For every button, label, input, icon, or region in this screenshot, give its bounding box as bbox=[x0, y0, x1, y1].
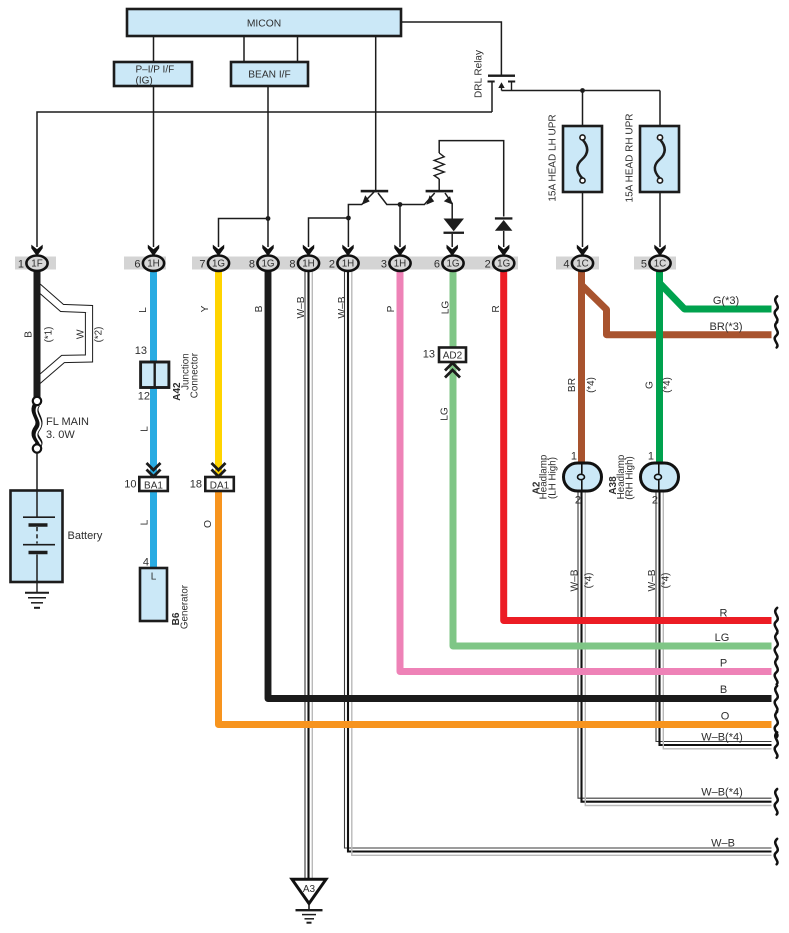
svg-text:2: 2 bbox=[652, 495, 658, 507]
svg-text:P: P bbox=[720, 657, 727, 669]
svg-text:3: 3 bbox=[381, 258, 387, 270]
svg-text:L: L bbox=[140, 519, 151, 525]
svg-text:12: 12 bbox=[138, 391, 150, 403]
svg-text:FL MAIN: FL MAIN bbox=[46, 416, 89, 428]
svg-text:1G: 1G bbox=[212, 259, 225, 270]
svg-text:1H: 1H bbox=[342, 259, 355, 270]
svg-text:(*2): (*2) bbox=[93, 327, 104, 343]
svg-text:1H: 1H bbox=[302, 259, 315, 270]
svg-text:5: 5 bbox=[641, 258, 647, 270]
svg-text:W: W bbox=[76, 329, 87, 339]
svg-text:R: R bbox=[491, 305, 502, 312]
svg-text:DA1: DA1 bbox=[210, 480, 230, 491]
svg-text:Battery: Battery bbox=[68, 530, 103, 542]
svg-text:2: 2 bbox=[485, 258, 491, 270]
svg-text:13: 13 bbox=[423, 349, 435, 361]
svg-text:1G: 1G bbox=[261, 259, 274, 270]
svg-text:A3: A3 bbox=[303, 884, 316, 895]
svg-text:10: 10 bbox=[124, 478, 136, 490]
svg-text:15A HEAD RH UPR: 15A HEAD RH UPR bbox=[625, 114, 636, 203]
svg-text:DRL Relay: DRL Relay bbox=[474, 50, 485, 98]
svg-text:1: 1 bbox=[571, 451, 577, 463]
svg-text:B: B bbox=[24, 331, 35, 338]
svg-text:8: 8 bbox=[289, 258, 295, 270]
svg-text:4: 4 bbox=[563, 258, 569, 270]
svg-text:B: B bbox=[720, 684, 727, 696]
svg-text:LG: LG bbox=[440, 407, 451, 421]
svg-text:BA1: BA1 bbox=[144, 480, 163, 491]
svg-text:W–B: W–B bbox=[296, 296, 307, 318]
svg-text:2: 2 bbox=[575, 495, 581, 507]
svg-text:P–I/P I/F: P–I/P I/F bbox=[136, 65, 175, 76]
svg-text:W–B(*4): W–B(*4) bbox=[701, 786, 743, 798]
svg-text:W–B: W–B bbox=[647, 569, 658, 591]
svg-text:7: 7 bbox=[199, 258, 205, 270]
svg-text:O: O bbox=[203, 520, 214, 528]
svg-text:3. 0W: 3. 0W bbox=[46, 429, 75, 441]
svg-text:G(*3): G(*3) bbox=[713, 295, 739, 307]
svg-text:W–B(*4): W–B(*4) bbox=[701, 731, 743, 743]
svg-text:2: 2 bbox=[329, 258, 335, 270]
svg-text:L: L bbox=[138, 307, 149, 313]
svg-text:BR: BR bbox=[567, 378, 578, 392]
svg-text:W–B: W–B bbox=[711, 838, 735, 850]
svg-text:8: 8 bbox=[249, 258, 255, 270]
svg-text:1G: 1G bbox=[497, 259, 510, 270]
svg-text:Generator: Generator bbox=[180, 584, 191, 629]
svg-text:W–B: W–B bbox=[337, 296, 348, 318]
svg-text:BEAN I/F: BEAN I/F bbox=[248, 70, 290, 81]
svg-text:1H: 1H bbox=[394, 259, 407, 270]
svg-text:15A HEAD LH UPR: 15A HEAD LH UPR bbox=[548, 114, 559, 201]
svg-text:B: B bbox=[254, 305, 265, 312]
svg-text:1G: 1G bbox=[446, 259, 459, 270]
svg-text:6: 6 bbox=[434, 258, 440, 270]
svg-text:Y: Y bbox=[200, 305, 211, 312]
svg-text:LG: LG bbox=[441, 301, 452, 315]
svg-text:6: 6 bbox=[134, 258, 140, 270]
svg-text:W–B: W–B bbox=[570, 569, 581, 591]
svg-text:P: P bbox=[386, 305, 397, 312]
svg-text:G: G bbox=[645, 381, 656, 389]
svg-text:AD2: AD2 bbox=[443, 350, 463, 361]
svg-text:1F: 1F bbox=[31, 259, 42, 270]
svg-text:1: 1 bbox=[18, 258, 24, 270]
svg-text:(RH High): (RH High) bbox=[625, 456, 636, 500]
svg-text:L: L bbox=[140, 426, 151, 432]
svg-text:(*1): (*1) bbox=[44, 327, 55, 343]
svg-text:1C: 1C bbox=[576, 259, 589, 270]
svg-text:4: 4 bbox=[143, 557, 149, 569]
svg-text:R: R bbox=[720, 607, 728, 619]
svg-text:(IG): (IG) bbox=[136, 76, 153, 87]
svg-text:(*4): (*4) bbox=[662, 377, 673, 393]
svg-text:LG: LG bbox=[715, 632, 730, 644]
svg-text:1C: 1C bbox=[654, 259, 667, 270]
svg-text:(*4): (*4) bbox=[586, 377, 597, 393]
svg-text:BR(*3): BR(*3) bbox=[709, 321, 742, 333]
svg-text:1: 1 bbox=[648, 451, 654, 463]
svg-text:O: O bbox=[721, 710, 730, 722]
svg-text:13: 13 bbox=[135, 345, 147, 357]
svg-text:1H: 1H bbox=[147, 259, 160, 270]
svg-text:(*4): (*4) bbox=[584, 573, 595, 589]
svg-text:(LH High): (LH High) bbox=[547, 457, 558, 499]
svg-text:18: 18 bbox=[190, 478, 202, 490]
svg-text:(*4): (*4) bbox=[661, 573, 672, 589]
svg-text:L: L bbox=[151, 572, 157, 583]
svg-text:MICON: MICON bbox=[247, 18, 281, 29]
svg-text:Connector: Connector bbox=[190, 352, 201, 398]
